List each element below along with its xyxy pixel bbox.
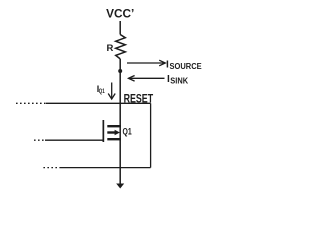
current arrow IQ1 bbox=[108, 83, 115, 100]
svg-text:VCC’: VCC’ bbox=[106, 7, 134, 21]
IC boundary bottom rail solid bbox=[61, 167, 151, 169]
IC boundary bottom rail dashed left segment bbox=[41, 167, 61, 169]
transistor Q1 bbox=[103, 120, 121, 142]
svg-text:SOURCE: SOURCE bbox=[170, 62, 203, 71]
resistor R bbox=[116, 35, 126, 59]
wire source to ground bbox=[119, 140, 121, 184]
gate wire dashed left segment bbox=[34, 139, 45, 141]
IC boundary top rail dashed left segment bbox=[16, 102, 46, 104]
ground bbox=[116, 184, 124, 189]
wire resistor to RESET node bbox=[119, 59, 121, 103]
drain channel bar bbox=[107, 125, 121, 127]
current arrow ISINK bbox=[129, 76, 165, 82]
label ISOURCE bbox=[166, 60, 202, 71]
wire VCC to resistor bbox=[119, 21, 121, 35]
body channel bar bbox=[107, 131, 115, 133]
IC boundary right edge bbox=[150, 103, 152, 167]
wire drain vertical RESET node to transistor bbox=[119, 103, 121, 140]
label IQ1 bbox=[97, 84, 105, 95]
current arrow ISOURCE bbox=[127, 60, 165, 66]
svg-text:Q1: Q1 bbox=[123, 127, 132, 137]
gate wire solid bbox=[45, 139, 103, 141]
body arrow bbox=[115, 130, 120, 135]
svg-text:R: R bbox=[107, 43, 114, 54]
gate bar bbox=[103, 120, 105, 142]
svg-text:SINK: SINK bbox=[170, 76, 188, 85]
label ISINK bbox=[167, 74, 188, 85]
source channel bar bbox=[107, 138, 121, 140]
IC boundary top rail solid bbox=[46, 102, 151, 104]
svg-text:Q1: Q1 bbox=[99, 88, 105, 95]
node RESET junction dot bbox=[118, 69, 122, 73]
